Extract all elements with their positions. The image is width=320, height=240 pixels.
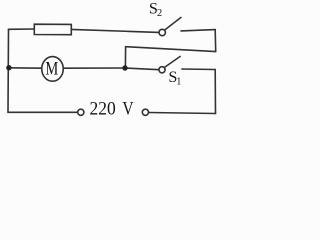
wire top-left to resistor [9, 28, 35, 30]
node junction dot left [6, 65, 11, 70]
wire right vertical lower [214, 70, 216, 114]
svg-text:V: V [122, 99, 134, 120]
resistor R1 [34, 24, 71, 35]
wire left vertical [7, 29, 10, 112]
terminal right [142, 109, 148, 115]
node junction dot mid [122, 65, 127, 70]
svg-text:220: 220 [90, 99, 116, 120]
switch S1 blade [165, 56, 181, 67]
wire node to S1 [125, 68, 158, 70]
motor U1 circle [42, 57, 64, 82]
wire left node to motor [8, 67, 42, 69]
svg-text:M: M [45, 59, 58, 80]
svg-text:1: 1 [176, 77, 181, 88]
wire right vertical upper [214, 30, 217, 52]
switch S2 hinge circle [159, 29, 165, 35]
switch S1 hinge circle [159, 67, 165, 73]
wire bottom right [149, 113, 216, 114]
wire S2 to right [181, 30, 215, 31]
wire bottom left [8, 111, 78, 113]
terminal left [78, 109, 84, 115]
wire mid horizontal return [126, 47, 216, 52]
switch S2 blade [165, 17, 181, 30]
wire motor to node [63, 67, 125, 69]
svg-text:2: 2 [157, 8, 162, 19]
wire vertical to node [124, 47, 126, 68]
wire resistor to S2 [71, 29, 159, 32]
wire S1 to right [182, 68, 215, 71]
